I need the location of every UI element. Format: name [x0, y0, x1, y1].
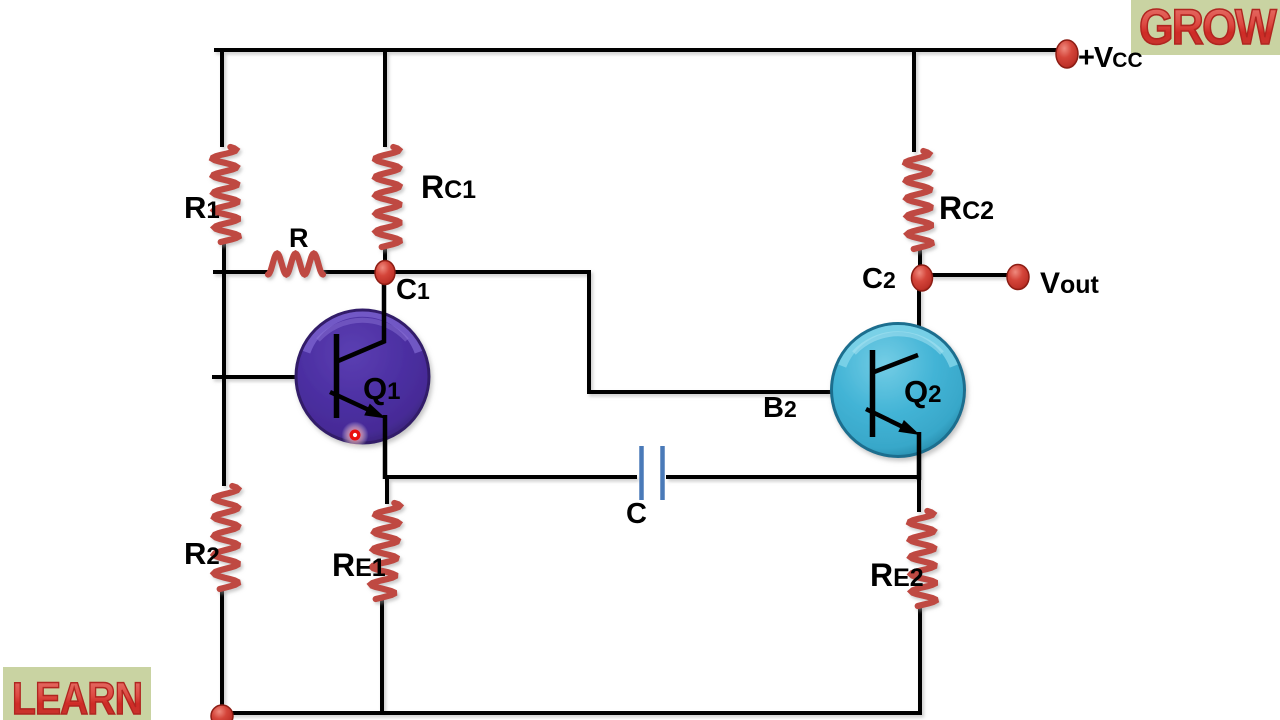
transistor Q2 emitter arrowhead [898, 420, 920, 435]
wire bottom rail [218, 711, 918, 715]
wire node C1 to corner [393, 270, 589, 274]
wire base row to Q2 [587, 390, 872, 394]
wire Rc1 stub to node C1 [383, 247, 387, 266]
wire cap row left [383, 475, 637, 479]
resistor Rc2 [906, 151, 932, 249]
wire node C2 to Vout [930, 273, 1008, 277]
transistor Q1 body [296, 310, 429, 443]
GROW logo box [1131, 0, 1280, 55]
transistor Q2 body [832, 324, 965, 457]
resistor R2 [214, 486, 238, 589]
transistor Q1 emitter arrowhead [364, 404, 386, 419]
svg-text:Vout: Vout [1040, 267, 1100, 300]
resistor Rc1 [375, 147, 399, 247]
svg-text:LEARN: LEARN [12, 673, 142, 720]
svg-text:C: C [626, 498, 647, 530]
node C2 junction dot [912, 265, 933, 291]
svg-text:B2: B2 [763, 392, 797, 424]
wire Q1 emitter to RE1 [385, 477, 389, 504]
wire feedback row left (left branch to R) [213, 270, 270, 274]
resistor R1 [213, 147, 239, 242]
transistor Q1 symbol [330, 264, 385, 479]
svg-text:C1: C1 [396, 274, 430, 306]
svg-text:GROW: GROW [1139, 0, 1277, 55]
node bottom-left junction dot [211, 705, 233, 720]
wire node C2 to Q2 collector [917, 289, 921, 356]
transistor Q2 symbol [866, 350, 919, 480]
capacitor C plates [642, 446, 663, 500]
wire cap row right [666, 475, 919, 479]
cursor glow [342, 422, 369, 449]
cursor ring [351, 431, 359, 439]
svg-text:C2: C2 [862, 263, 896, 295]
resistor Re2 [910, 511, 936, 606]
wire Q2 emitter vertical to RE2 [917, 434, 921, 512]
wire corner vertical x589 [587, 270, 591, 390]
wire left branch upper (top rail to R1) [220, 50, 224, 147]
wire left branch lower (R2 to bottom rail) [220, 589, 224, 714]
wire Rc1 branch upper (top rail to Rc1) [383, 50, 387, 147]
wire left branch middle (R1 to R2) [222, 242, 226, 486]
wire RE1 to bottom rail [380, 598, 384, 714]
LEARN logo box [3, 667, 151, 720]
wire RE2 to bottom rail [918, 605, 922, 715]
wire top rail [214, 48, 1057, 52]
svg-text:R: R [289, 223, 309, 253]
wire feedback row right (R to node C1) [322, 270, 378, 274]
wire Rc2 stub to node C2 [918, 248, 922, 267]
resistor Re1 [371, 503, 400, 599]
wire Rc2 branch upper (top rail to Rc2) [912, 50, 916, 152]
node C1 junction dot [375, 261, 395, 285]
resistor R [268, 254, 323, 275]
wire base row to Q1 [212, 375, 336, 379]
node +Vcc terminal dot [1056, 40, 1078, 68]
node Vout terminal dot [1007, 265, 1029, 290]
